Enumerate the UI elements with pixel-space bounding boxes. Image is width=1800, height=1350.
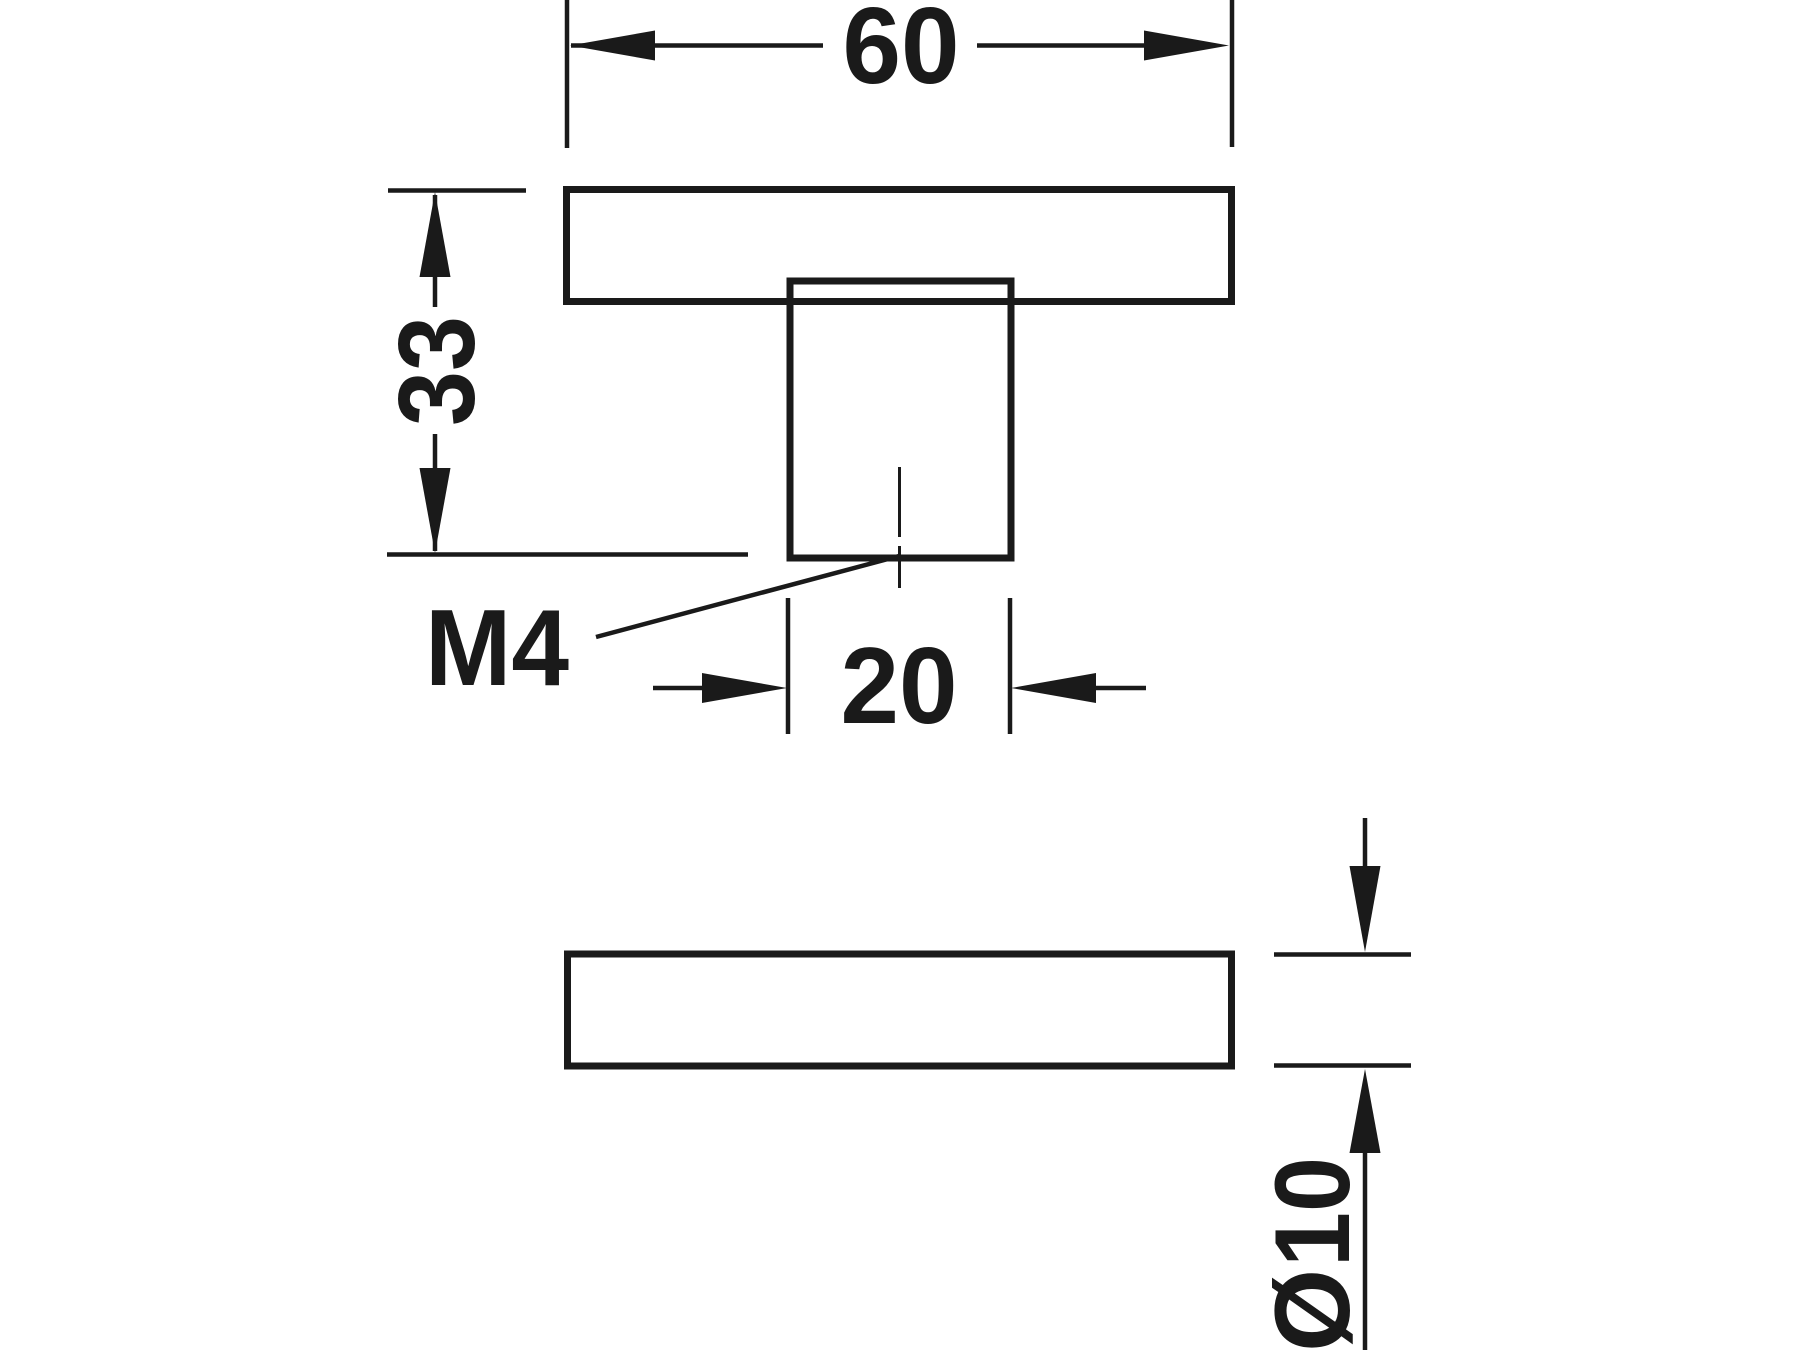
knob top bar (front view): [567, 190, 1232, 302]
33 extension line top: [388, 188, 526, 193]
60 dimension line right segment: [977, 43, 1147, 48]
20 extension line left: [786, 598, 791, 734]
M4 leader line: [596, 556, 899, 637]
33 dimension line lower shaft: [433, 434, 438, 551]
20 dimension line left segment: [653, 686, 704, 691]
60 arrow right: [1144, 31, 1229, 61]
diameter arrow down: [1350, 866, 1381, 952]
33 arrow up: [420, 192, 451, 277]
knob stem (front view): [790, 281, 1011, 558]
33 extension line bottom: [387, 552, 748, 557]
svg-text:M4: M4: [425, 587, 569, 709]
stem centerline lower segment: [898, 546, 901, 588]
diameter arrow up: [1350, 1069, 1381, 1153]
33 dimension line upper shaft: [433, 195, 438, 307]
20 arrow left: [702, 673, 787, 703]
diameter tick top: [1274, 952, 1411, 957]
knob bar (side view): [568, 954, 1232, 1066]
33 arrow down: [420, 468, 451, 553]
svg-text:Ø: Ø: [1252, 1269, 1372, 1350]
svg-text:10: 10: [1252, 1157, 1372, 1267]
20 dimension line right segment: [1094, 686, 1146, 691]
svg-text:60: 60: [843, 0, 960, 107]
20 extension line right: [1008, 598, 1013, 734]
diameter dim line lower: [1363, 1152, 1368, 1350]
diameter dim line upper: [1363, 818, 1368, 870]
60 extension line left: [565, 0, 570, 148]
60 extension line right: [1230, 0, 1235, 147]
svg-text:33: 33: [376, 316, 498, 426]
20 arrow right: [1011, 673, 1096, 703]
60 arrow left: [570, 31, 655, 61]
60 dimension line left segment: [571, 43, 823, 48]
diameter tick bottom: [1274, 1063, 1411, 1068]
svg-text:20: 20: [841, 625, 958, 747]
stem centerline upper segment: [898, 467, 901, 537]
